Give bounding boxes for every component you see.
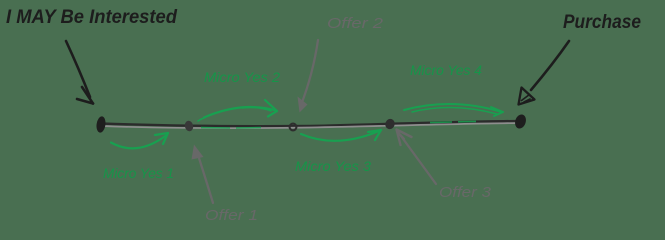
svg-text:Offer 2: Offer 2 [327, 15, 384, 32]
timeline main line (double sketch stroke) [101, 121, 523, 128]
svg-text:Micro Yes 2: Micro Yes 2 [204, 69, 280, 85]
offer 2 arrow (gray, pointing down to node 3) [298, 40, 319, 113]
svg-text:Offer 1: Offer 1 [205, 207, 258, 224]
label: I MAY Be Interested [6, 7, 177, 28]
svg-text:Micro Yes 4: Micro Yes 4 [410, 62, 482, 78]
arrow from "Purchase" to end node (hollow triangle head) [519, 41, 570, 105]
node 3 (hollow circle) [290, 124, 297, 131]
arrow from "I MAY Be Interested" to start node [66, 41, 93, 104]
svg-text:Purchase: Purchase [563, 12, 641, 33]
svg-text:Offer 3: Offer 3 [439, 184, 492, 201]
micro yes 2 arc (green, above line) [198, 100, 277, 121]
offer 3 arrow (gray, pointing up-left to node 4) [397, 130, 437, 185]
node start (filled ellipse) [96, 116, 107, 133]
micro yes 3 arc (green, below line) [301, 130, 381, 141]
node 2 [184, 120, 195, 132]
label: Purchase [563, 12, 641, 33]
micro yes 4 arc (green, above line, double stroke) [404, 104, 503, 116]
node end (filled ellipse) [513, 113, 527, 130]
micro yes 1 arc (green, below line) [111, 133, 168, 148]
green residue marks along timeline [201, 121, 476, 128]
node 4 [384, 118, 396, 131]
offer 1 arrow (gray, pointing up to node 2) [192, 145, 214, 204]
svg-text:I MAY Be Interested: I MAY Be Interested [6, 7, 177, 28]
svg-text:Micro Yes 3: Micro Yes 3 [295, 158, 371, 174]
svg-text:Micro Yes 1: Micro Yes 1 [103, 165, 174, 181]
